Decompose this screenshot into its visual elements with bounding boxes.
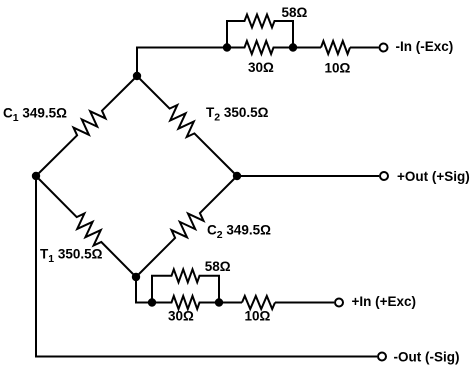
node bridge top node (133, 72, 141, 80)
resistor T2 350.5ohm (bridge upper-right arm) (137, 76, 237, 176)
node junction bottom parallel right (215, 298, 223, 306)
wire bottom-branch from bridge bottom node down and right (136, 277, 152, 303)
wire top-branch from bridge top node up and right to -In terminal (137, 48, 227, 77)
svg-text:58Ω: 58Ω (205, 259, 231, 274)
node bridge left node (32, 172, 40, 180)
svg-text:+In (+Exc): +In (+Exc) (352, 294, 417, 309)
node junction top parallel right (289, 43, 297, 51)
resistor 58ohm (bottom parallel pair, upper) with loop wire (152, 269, 219, 302)
node bridge bottom node (132, 273, 140, 281)
node junction top parallel left (223, 43, 231, 51)
terminal +In (+Exc) (335, 299, 343, 307)
resistor 30ohm (top parallel pair, lower) (227, 41, 293, 54)
svg-text:10Ω: 10Ω (325, 60, 351, 75)
node junction bottom parallel left (148, 298, 156, 306)
svg-text:+Out (+Sig): +Out (+Sig) (397, 169, 470, 184)
resistor 10ohm (top branch) (321, 41, 350, 54)
resistor 30ohm (bottom parallel pair, lower) (152, 296, 219, 309)
resistor C2 349.5ohm (bridge lower-right arm) (136, 176, 237, 277)
wire 10ohm to -In terminal (350, 47, 379, 49)
wire between top parallel pair and 10ohm (293, 47, 321, 49)
node bridge right node (233, 172, 241, 180)
svg-text:30Ω: 30Ω (248, 60, 274, 75)
resistor C1 349.5ohm (bridge upper-left arm) (36, 76, 137, 176)
resistor 10ohm (bottom branch) (242, 296, 275, 309)
wire right node to +Out terminal (237, 175, 379, 177)
resistor T1 350.5ohm (bridge lower-left arm) (36, 176, 136, 277)
terminal -Out (-Sig) (378, 353, 386, 361)
wire 10ohm to +In terminal (275, 302, 334, 304)
svg-text:-Out (-Sig): -Out (-Sig) (394, 349, 460, 364)
terminal -In (-Exc) (380, 44, 388, 52)
terminal +Out (+Sig) (380, 172, 388, 180)
wire left node down and along bottom to -Out terminal (36, 176, 377, 357)
svg-text:-In (-Exc): -In (-Exc) (396, 39, 454, 54)
wire between bottom parallel pair and 10ohm (219, 302, 242, 304)
svg-text:10Ω: 10Ω (245, 309, 271, 324)
resistor 58ohm (top parallel pair, upper) with loop wire (227, 15, 293, 48)
svg-text:58Ω: 58Ω (282, 5, 308, 20)
svg-text:30Ω: 30Ω (168, 309, 194, 324)
